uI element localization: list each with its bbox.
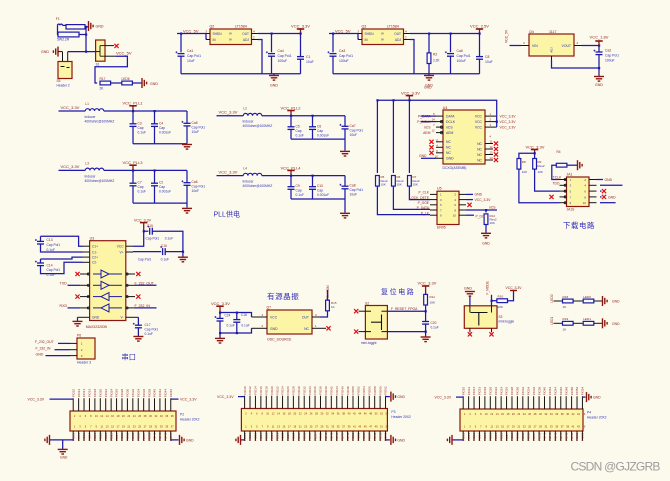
- svg-text:Header 20X2: Header 20X2: [391, 415, 411, 419]
- ground: [421, 336, 431, 338]
- svg-text:GND: GND: [605, 178, 613, 182]
- svg-text:FIO18: FIO18: [93, 389, 97, 398]
- svg-text:ADJ: ADJ: [395, 38, 401, 42]
- svg-text:VCC: VCC: [475, 126, 483, 130]
- svg-text:100uF: 100uF: [605, 59, 615, 63]
- svg-text:VCC_5V: VCC_5V: [183, 29, 199, 34]
- svg-text:Inducer: Inducer: [243, 180, 255, 184]
- svg-text:Cap: Cap: [159, 185, 165, 189]
- svg-text:10uF: 10uF: [485, 60, 493, 64]
- junction: [132, 110, 134, 112]
- wire output: [252, 33, 259, 35]
- svg-text:GND: GND: [593, 396, 601, 400]
- wire adj to ground: [551, 56, 553, 60]
- svg-text:FIO41: FIO41: [153, 432, 157, 441]
- no-ERC cross left pin7: [549, 195, 553, 199]
- svg-text:0.1uF: 0.1uF: [138, 190, 146, 194]
- svg-text:12: 12: [490, 145, 494, 149]
- svg-text:FIO15: FIO15: [254, 432, 258, 441]
- svg-text:FIO19: FIO19: [264, 432, 268, 441]
- header P4 bottom pins with labels: [462, 431, 464, 441]
- svg-text:C16: C16: [161, 244, 167, 248]
- svg-text:FIO41: FIO41: [543, 432, 547, 441]
- wire: [217, 115, 244, 117]
- svg-text:C7: C7: [138, 181, 142, 185]
- switch S3: [464, 306, 497, 329]
- svg-text:LED6: LED6: [122, 77, 130, 81]
- ground: [577, 160, 579, 170]
- svg-text:FIO20: FIO20: [270, 386, 274, 395]
- svg-text:VOUT: VOUT: [562, 44, 571, 48]
- svg-text:1K: 1K: [331, 305, 335, 309]
- ground: [273, 74, 275, 76]
- svg-text:FIO56: FIO56: [367, 386, 371, 395]
- svg-text:0.1uF: 0.1uF: [138, 130, 146, 134]
- header P3 bottom pins with labels: [244, 431, 246, 441]
- svg-text:Header 2: Header 2: [57, 84, 70, 88]
- svg-text:C20: C20: [431, 321, 437, 325]
- svg-text:L1: L1: [85, 102, 89, 106]
- svg-text:ADJ: ADJ: [550, 47, 554, 53]
- svg-text:FIO13: FIO13: [467, 432, 471, 441]
- svg-text:0.001uF: 0.001uF: [317, 133, 329, 137]
- svg-text:FIO32: FIO32: [302, 386, 306, 395]
- power port VCC_2.5V: [479, 29, 481, 34]
- svg-text:OSC_SOURCE: OSC_SOURCE: [267, 337, 292, 341]
- svg-text:nCS: nCS: [446, 126, 453, 130]
- ground: [344, 139, 346, 151]
- svg-text:P_DATA: P_DATA: [417, 206, 430, 210]
- svg-text:SHDN: SHDN: [365, 32, 375, 36]
- svg-text:C1-: C1-: [92, 250, 97, 254]
- svg-text:TXD: TXD: [60, 281, 68, 285]
- svg-text:OUT: OUT: [242, 32, 249, 36]
- svg-text:FIO12: FIO12: [77, 389, 81, 398]
- svg-text:FIO30: FIO30: [516, 387, 520, 396]
- header P2 bottom pins with labels: [72, 431, 74, 441]
- svg-text:FIO42: FIO42: [548, 387, 552, 396]
- input capacitor Ca3: [332, 34, 334, 53]
- svg-text:W: W: [381, 32, 384, 36]
- svg-text:Inducer: Inducer: [243, 120, 255, 124]
- input capacitor Ca1: [180, 34, 182, 53]
- svg-text:C18: C18: [241, 313, 247, 317]
- svg-text:nCS: nCS: [489, 206, 496, 210]
- wire: [262, 175, 345, 177]
- svg-text:GND: GND: [397, 395, 405, 399]
- resistor R9 10K: [533, 159, 537, 170]
- ground: [602, 296, 604, 306]
- svg-text:F_MODE: F_MODE: [486, 281, 490, 294]
- svg-text:GND: GND: [446, 157, 454, 161]
- svg-text:ER05: ER05: [437, 226, 446, 230]
- svg-text:10uF: 10uF: [187, 59, 195, 63]
- svg-text:PLL供电: PLL供电: [214, 210, 240, 219]
- svg-text:GND: GND: [60, 456, 68, 460]
- wire R5 to U5: [377, 186, 430, 215]
- svg-text:GND: GND: [41, 50, 49, 54]
- svg-text:GND: GND: [612, 322, 620, 326]
- svg-text:FIO51: FIO51: [570, 432, 574, 441]
- svg-text:FIO14: FIO14: [82, 389, 86, 398]
- svg-text:P_LE: P_LE: [421, 211, 430, 215]
- svg-text:VCC: VCC: [270, 316, 278, 320]
- pins buffer rows: [80, 273, 90, 275]
- wire adj down: [404, 39, 411, 41]
- wire mode column: [491, 295, 493, 306]
- resistor R1 5W2.2R: [58, 32, 79, 37]
- svg-text:10uF: 10uF: [350, 193, 358, 197]
- svg-text:LT1584: LT1584: [235, 25, 247, 29]
- svg-text:Cap Pol1: Cap Pol1: [605, 54, 619, 58]
- svg-text:FIO28: FIO28: [292, 386, 296, 395]
- svg-text:OUT: OUT: [394, 32, 401, 36]
- svg-text:VCC_5V: VCC_5V: [335, 29, 351, 34]
- svg-text:GND: GND: [397, 438, 405, 442]
- svg-text:Ca5: Ca5: [192, 121, 198, 125]
- resistor R10 10K: [492, 300, 497, 302]
- svg-text:10K: 10K: [381, 183, 386, 187]
- svg-text:RXD: RXD: [60, 304, 68, 308]
- wire switch bottom: [387, 331, 425, 333]
- svg-text:C10: C10: [317, 184, 323, 188]
- svg-text:FIO27: FIO27: [286, 432, 290, 441]
- svg-text:FIO20: FIO20: [99, 389, 103, 398]
- wire P_DCLK: [421, 121, 437, 123]
- svg-text:FIO39: FIO39: [319, 432, 323, 441]
- svg-text:C24: C24: [225, 314, 231, 318]
- no-ERC crosses left: [75, 272, 79, 276]
- wire shdn to in: [205, 34, 207, 40]
- svg-text:5W2.2R: 5W2.2R: [57, 38, 70, 42]
- svg-text:FIO22: FIO22: [494, 387, 498, 396]
- svg-text:VCC: VCC: [117, 245, 124, 249]
- svg-text:FIO33: FIO33: [302, 432, 306, 441]
- svg-text:FIO14: FIO14: [254, 386, 258, 395]
- svg-text:FIO18: FIO18: [483, 387, 487, 396]
- svg-text:R18: R18: [563, 295, 569, 299]
- svg-text:VCC_3.3V: VCC_3.3V: [435, 396, 452, 400]
- svg-text:VCC_3.3V: VCC_3.3V: [291, 24, 310, 29]
- svg-text:FIO45: FIO45: [164, 432, 168, 441]
- pin switch NC: [105, 45, 114, 47]
- svg-text:Cap: Cap: [317, 189, 323, 193]
- svg-text:CSDN @GJZGRB: CSDN @GJZGRB: [571, 459, 661, 473]
- wire R6 to U5: [393, 186, 430, 209]
- capacitor Ca5: [186, 111, 188, 123]
- svg-text:W: W: [381, 38, 384, 42]
- svg-text:GND: GND: [475, 193, 483, 197]
- svg-text:C4: C4: [159, 121, 163, 125]
- svg-text:mini-toggle: mini-toggle: [361, 341, 377, 345]
- svg-text:FIO48: FIO48: [564, 387, 568, 396]
- svg-text:L3: L3: [85, 161, 89, 165]
- svg-text:Q7: Q7: [267, 306, 272, 310]
- wire reset net: [387, 310, 425, 312]
- wire input: [177, 33, 206, 35]
- svg-text:mini-toggle: mini-toggle: [499, 319, 515, 323]
- wire GND bottom left: [452, 439, 463, 441]
- header P1 Header2: [58, 62, 72, 79]
- svg-text:FIO58: FIO58: [373, 386, 377, 395]
- svg-text:13: 13: [490, 151, 494, 155]
- svg-text:P_GOE: P_GOE: [418, 201, 430, 205]
- output capacitor Ca4: [271, 33, 273, 35]
- svg-text:10K: 10K: [490, 221, 495, 225]
- svg-text:GND: GND: [150, 82, 158, 86]
- svg-text:FIO17: FIO17: [88, 432, 92, 441]
- svg-text:GND: GND: [36, 352, 44, 356]
- svg-text:NC: NC: [446, 151, 451, 155]
- wire U5 pin10: [466, 214, 474, 216]
- svg-text:FIO32: FIO32: [131, 389, 135, 398]
- svg-text:C3: C3: [138, 121, 142, 125]
- capacitor C7: [132, 170, 134, 183]
- wire: [573, 322, 583, 324]
- wire squiggle: [58, 24, 63, 25]
- switch S1: [96, 40, 105, 61]
- svg-text:FIO19: FIO19: [93, 432, 97, 441]
- svg-text:FIO16: FIO16: [478, 387, 482, 396]
- svg-text:100uF: 100uF: [339, 59, 349, 63]
- resistor R15: [326, 300, 330, 311]
- svg-text:0.1uF: 0.1uF: [47, 248, 55, 252]
- svg-text:100uF: 100uF: [278, 59, 288, 63]
- wire GND bottom left: [50, 439, 74, 441]
- ground: [598, 68, 600, 77]
- svg-text:GND: GND: [612, 300, 620, 304]
- svg-text:10uF: 10uF: [350, 133, 358, 137]
- svg-text:C1: C1: [306, 55, 310, 59]
- svg-text:C6: C6: [317, 124, 321, 128]
- svg-text:FIO20: FIO20: [489, 387, 493, 396]
- svg-text:FIO36: FIO36: [313, 386, 317, 395]
- svg-text:FIO46: FIO46: [169, 389, 173, 398]
- svg-text:FIO60: FIO60: [378, 386, 382, 395]
- svg-text:FIO38: FIO38: [537, 387, 541, 396]
- svg-text:C8: C8: [485, 55, 489, 59]
- svg-text:AEM: AEM: [446, 131, 454, 135]
- svg-text:R11: R11: [430, 295, 436, 299]
- svg-text:Ca6: Ca6: [192, 180, 198, 184]
- svg-text:FIO23: FIO23: [275, 432, 279, 441]
- wire VCC left: [456, 396, 463, 398]
- wire switch to LED resistors: [95, 56, 127, 83]
- pins left with crosses: [359, 310, 366, 312]
- ground right top: [586, 392, 588, 402]
- svg-text:Cap: Cap: [296, 129, 302, 133]
- wire resistor to node: [79, 34, 86, 36]
- power port VCC_1.8V: [598, 41, 600, 46]
- svg-text:FIO23: FIO23: [104, 432, 108, 441]
- svg-text:VCC_PLL3: VCC_PLL3: [123, 160, 144, 165]
- svg-text:FIO12: FIO12: [248, 386, 252, 395]
- svg-text:4000ohm@100MHZ: 4000ohm@100MHZ: [243, 184, 273, 188]
- wire right pin2 GND: [597, 179, 604, 181]
- svg-text:FIO21: FIO21: [99, 432, 103, 441]
- svg-text:C14: C14: [47, 264, 53, 268]
- capacitor C18: [236, 313, 238, 320]
- svg-text:NC: NC: [446, 146, 451, 150]
- wire to ground: [132, 82, 141, 84]
- svg-text:FIO25: FIO25: [109, 432, 113, 441]
- svg-text:C1+: C1+: [92, 245, 98, 249]
- wire: [217, 175, 244, 177]
- svg-text:FIO34: FIO34: [308, 386, 312, 395]
- svg-text:P_DO: P_DO: [476, 215, 485, 219]
- wire GND bottom left: [241, 439, 245, 441]
- wire right pin10: [600, 202, 616, 204]
- svg-text:VCC_PLL4: VCC_PLL4: [281, 165, 302, 170]
- svg-text:Header 20X2: Header 20X2: [587, 415, 607, 419]
- svg-text:C2: C2: [159, 181, 163, 185]
- svg-text:10K: 10K: [522, 170, 527, 174]
- svg-text:FIO32: FIO32: [521, 387, 525, 396]
- wire input: [510, 45, 522, 47]
- wire node to switch: [68, 51, 96, 53]
- svg-text:DCLK: DCLK: [446, 120, 456, 124]
- resistor R5 10K: [376, 176, 380, 187]
- svg-text:VCC_3.3V: VCC_3.3V: [219, 110, 238, 115]
- svg-text:10K: 10K: [397, 183, 402, 187]
- wire R8 to header pin9: [519, 169, 560, 203]
- wire VCC left: [238, 396, 245, 398]
- svg-text:FIO24: FIO24: [281, 386, 285, 395]
- svg-text:DATA: DATA: [446, 115, 455, 119]
- net label F232_OUT: [135, 284, 157, 286]
- svg-text:FIO54: FIO54: [362, 386, 366, 395]
- svg-text:FIO31: FIO31: [126, 432, 130, 441]
- svg-text:FIO10: FIO10: [461, 387, 465, 396]
- svg-text:Q4: Q4: [529, 30, 534, 34]
- no-ERC cross: [326, 326, 330, 330]
- svg-text:FIO55: FIO55: [362, 432, 366, 441]
- svg-text:Ca2: Ca2: [605, 49, 611, 53]
- svg-text:Cap: Cap: [317, 129, 323, 133]
- svg-text:S1: S1: [96, 63, 100, 67]
- resistor R3 2.2K: [428, 33, 430, 35]
- svg-text:Cap: Cap: [138, 126, 144, 130]
- capacitor C6: [312, 116, 314, 127]
- svg-text:FIO57: FIO57: [367, 432, 371, 441]
- svg-text:U5: U5: [437, 187, 442, 191]
- wire R4 to ground: [567, 164, 577, 166]
- resistor R11 10K: [424, 294, 428, 305]
- svg-text:JA1S: JA1S: [567, 208, 576, 212]
- pin header pin1 to ground: [58, 51, 63, 53]
- svg-text:Cap Pol1: Cap Pol1: [457, 54, 471, 58]
- svg-text:OUT: OUT: [302, 316, 309, 320]
- ground: [428, 74, 430, 76]
- svg-text:FIO33: FIO33: [131, 432, 135, 441]
- svg-text:FIO35: FIO35: [308, 432, 312, 441]
- svg-text:Cap Pol1: Cap Pol1: [278, 54, 292, 58]
- svg-text:10uF: 10uF: [192, 189, 200, 193]
- ground bottom center: [62, 440, 64, 449]
- buffers: [101, 270, 109, 278]
- svg-text:FIO41: FIO41: [324, 432, 328, 441]
- svg-text:FIO52: FIO52: [357, 386, 361, 395]
- ground GND pin: [78, 316, 90, 318]
- wire right pin4 long: [600, 184, 623, 186]
- svg-text:FIO35: FIO35: [526, 432, 530, 441]
- svg-text:FIO26: FIO26: [115, 389, 119, 398]
- svg-text:GND: GND: [186, 438, 194, 442]
- net label F232_IN: [135, 307, 157, 309]
- svg-text:FIO10: FIO10: [71, 389, 75, 398]
- wire R9 to header pin5: [535, 169, 560, 191]
- wire output: [574, 45, 582, 47]
- svg-text:FIO59: FIO59: [373, 432, 377, 441]
- pin switch output: [105, 55, 116, 57]
- svg-text:R10: R10: [498, 294, 504, 298]
- svg-text:0.1uF: 0.1uF: [165, 237, 173, 241]
- svg-text:F_RESET_FPGA: F_RESET_FPGA: [391, 307, 418, 311]
- svg-text:FIO46: FIO46: [340, 386, 344, 395]
- svg-text:Ca3: Ca3: [339, 49, 345, 53]
- wire VCC left: [50, 398, 74, 400]
- svg-text:FIO38: FIO38: [147, 389, 151, 398]
- svg-text:W: W: [229, 38, 232, 42]
- pin U4 GND: [436, 157, 443, 159]
- svg-text:FIO43: FIO43: [158, 432, 162, 441]
- svg-text:GND: GND: [92, 316, 100, 320]
- svg-text:VCC_3.3V: VCC_3.3V: [180, 398, 197, 402]
- svg-text:FIO27: FIO27: [505, 432, 509, 441]
- svg-text:Cap Pol1: Cap Pol1: [145, 327, 159, 331]
- svg-text:10K: 10K: [538, 170, 543, 174]
- wire: [104, 110, 187, 112]
- svg-text:VCC_3.3V: VCC_3.3V: [418, 280, 437, 285]
- svg-text:0.001uF: 0.001uF: [159, 190, 171, 194]
- svg-text:10: 10: [453, 214, 457, 218]
- ground: [219, 333, 221, 338]
- svg-text:14: 14: [490, 156, 494, 160]
- wire down to node: [85, 27, 87, 52]
- svg-text:Q2: Q2: [210, 25, 215, 29]
- capacitor C16: [126, 251, 133, 253]
- wire pullup columns: [376, 100, 378, 173]
- svg-text:LED0: LED0: [583, 295, 591, 299]
- output capacitor C1: [300, 34, 302, 57]
- wire top rail: [220, 313, 252, 318]
- svg-text:L2: L2: [243, 107, 247, 111]
- svg-text:FIO39: FIO39: [147, 432, 151, 441]
- wire to pullup resistors: [519, 153, 535, 158]
- power port VCC_3.3V: [510, 290, 517, 292]
- svg-text:FIO19: FIO19: [483, 432, 487, 441]
- svg-text:S5: S5: [57, 79, 61, 83]
- svg-text:Cap Pol1: Cap Pol1: [47, 243, 61, 247]
- header P4 body: [460, 409, 583, 431]
- svg-text:C13: C13: [47, 238, 53, 242]
- svg-text:Inducer: Inducer: [85, 115, 97, 119]
- svg-text:FIO40: FIO40: [153, 389, 157, 398]
- svg-text:FIO45: FIO45: [335, 432, 339, 441]
- svg-text:FIO24: FIO24: [109, 389, 113, 398]
- svg-text:VCC_3.3V: VCC_3.3V: [475, 198, 492, 202]
- svg-text:FIO50: FIO50: [570, 387, 574, 396]
- svg-text:0.1uF: 0.1uF: [431, 325, 439, 329]
- svg-text:LED1: LED1: [550, 317, 554, 325]
- svg-text:ADJ: ADJ: [243, 38, 249, 42]
- svg-text:FIO29: FIO29: [120, 432, 124, 441]
- ground: [88, 21, 90, 31]
- svg-text:10: 10: [583, 201, 587, 205]
- svg-text:C17: C17: [145, 323, 151, 327]
- svg-text:VCC_3.3V: VCC_3.3V: [219, 169, 238, 174]
- wire right top: [386, 396, 390, 398]
